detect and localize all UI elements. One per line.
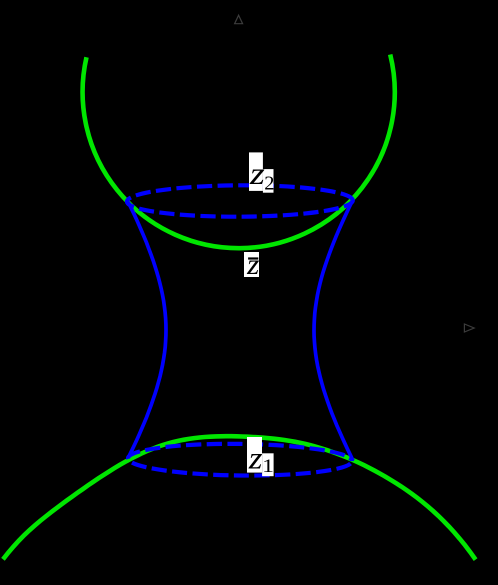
label z1 white box (z)	[247, 437, 262, 473]
z-axis arrowhead (faint, top center)	[235, 15, 243, 24]
label z1 white box (subscript 1)	[262, 453, 274, 476]
hyperboloid left profile (blue hyperbola)	[128, 202, 166, 458]
green circle arc (upper sphere, through circle z2)	[83, 55, 395, 249]
hyperboloid right profile (blue hyperbola)	[314, 201, 353, 461]
label z2 white box (z)	[249, 152, 263, 191]
svg-text:z: z	[248, 440, 263, 476]
green circle arc (lower sphere, through circle z1)	[3, 436, 476, 559]
svg-text:z: z	[249, 155, 266, 191]
top rim circle z2 (dashed blue ellipse)	[127, 185, 353, 218]
label zbar overbar	[248, 257, 258, 259]
svg-text:1: 1	[262, 456, 274, 477]
svg-text:2: 2	[264, 173, 274, 195]
label z2 white box (subscript 2)	[263, 169, 274, 193]
svg-text:z: z	[246, 248, 260, 281]
label zbar white box	[244, 252, 259, 277]
bottom rim circle z1 (dashed blue ellipse)	[128, 443, 352, 477]
r-axis arrowhead (faint, right side)	[464, 324, 474, 332]
